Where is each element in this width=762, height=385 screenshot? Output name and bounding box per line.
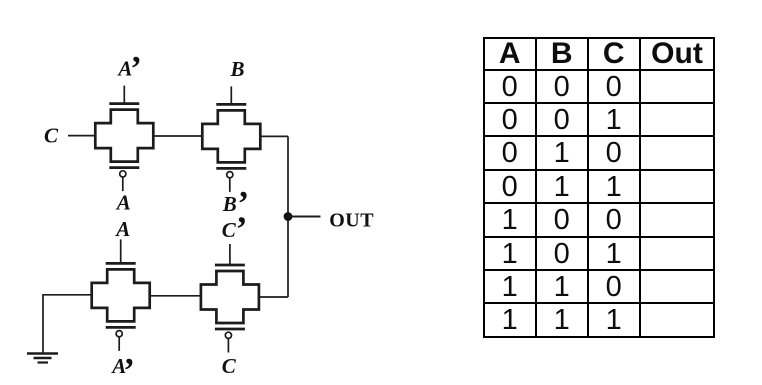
wire TG3 left to ground xyxy=(43,295,92,353)
ground xyxy=(27,354,58,363)
wire TG2 right to OUT rail xyxy=(260,135,288,137)
wire C input to TG1 left xyxy=(68,135,95,137)
label A (TG3 top gate) xyxy=(114,217,130,241)
label C' (TG4 top gate) xyxy=(222,210,248,249)
svg-text:’: ’ xyxy=(236,210,248,249)
transmission gate TG2 (gates B/B') xyxy=(202,86,260,191)
svg-text:’: ’ xyxy=(123,351,135,385)
label A' (TG3 bottom gate) xyxy=(110,351,135,385)
label A' (TG1 top gate) xyxy=(116,49,141,88)
label B (TG2 top gate) xyxy=(230,57,245,81)
label C (TG4 bottom gate) xyxy=(222,354,237,378)
svg-text:B: B xyxy=(222,192,237,216)
OUT rail (vertical wire) xyxy=(287,136,289,297)
svg-text:C: C xyxy=(222,354,237,378)
wire node to OUT label xyxy=(288,216,321,218)
node OUT junction dot xyxy=(284,212,293,221)
label C (input) xyxy=(44,123,59,147)
svg-text:’: ’ xyxy=(130,49,142,88)
transmission gate TG3 (gates A/A') xyxy=(92,239,150,351)
wire TG3 right to TG4 left xyxy=(150,295,201,297)
svg-text:A: A xyxy=(115,191,131,215)
transmission gate TG1 (gates A'/A) xyxy=(95,86,153,192)
svg-text:C: C xyxy=(222,218,237,242)
wire TG4 right to OUT rail xyxy=(259,296,288,298)
transmission gate TG4 (gates C'/C) xyxy=(201,244,259,353)
truth table xyxy=(483,37,716,338)
svg-text:A: A xyxy=(114,217,130,241)
label A (TG1 bottom gate) xyxy=(115,191,131,215)
svg-text:OUT: OUT xyxy=(329,209,374,231)
svg-text:C: C xyxy=(44,123,59,147)
wire TG1 right to TG2 left xyxy=(153,135,202,137)
svg-text:B: B xyxy=(230,57,245,81)
label B' (TG2 bottom gate) xyxy=(222,184,249,223)
